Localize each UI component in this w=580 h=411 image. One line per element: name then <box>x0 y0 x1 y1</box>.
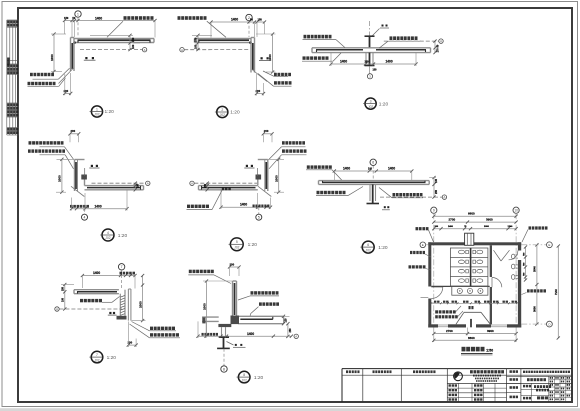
detail 4 reference line and circle A <box>92 182 145 184</box>
svg-text:1400: 1400 <box>343 167 350 171</box>
svg-text:1000: 1000 <box>202 303 206 310</box>
detail 7 reference line and circle A <box>55 307 59 311</box>
detail 7 insulation board <box>127 289 129 321</box>
detail 5 wall <box>267 160 269 192</box>
left sidebar table text rows <box>7 20 9 23</box>
plan interior dimension row <box>431 302 517 304</box>
detail 3 small circle below <box>367 74 372 79</box>
detail 1 reference line and circle A <box>80 49 142 51</box>
plan grid bubble 9 top left <box>431 207 437 213</box>
svg-text:250: 250 <box>204 183 207 188</box>
plan sinks <box>457 288 462 293</box>
svg-text:8: 8 <box>223 367 225 371</box>
title block drawing name section <box>521 375 572 377</box>
detail 7 masonry wall hatched <box>119 294 121 316</box>
detail 7 tie bar label bottom <box>150 333 179 336</box>
plan stall center wall <box>470 248 472 286</box>
detail 5 roof slab <box>199 185 258 187</box>
svg-text:J02: J02 <box>366 248 371 252</box>
detail 8 wall below <box>221 327 223 337</box>
detail 2 embedded part symbol <box>261 57 263 59</box>
detail 1 slab rebar <box>78 39 151 41</box>
svg-text:1000: 1000 <box>268 54 272 61</box>
title block drawing title texts <box>523 385 531 388</box>
detail 8 right slab rebar <box>240 318 272 320</box>
plan left wall <box>428 242 431 286</box>
detail 6 top dimension 1400 100 1400 <box>334 170 412 172</box>
detail 6 wall below <box>369 184 371 201</box>
plan bottom wall <box>428 324 438 327</box>
bottom gray shadow band <box>0 408 580 411</box>
detail 8 polystyrene label right <box>259 302 279 305</box>
svg-text:A: A <box>191 181 193 185</box>
svg-text:J02: J02 <box>242 378 247 382</box>
detail 2 wall break line <box>252 70 267 82</box>
detail 2 scale bubble 1:20 <box>217 106 228 117</box>
svg-text:1:20: 1:20 <box>378 245 388 251</box>
title block right mini grid <box>549 379 572 381</box>
svg-text:1:20: 1:20 <box>107 355 117 361</box>
detail 1 wall break line <box>59 68 74 84</box>
svg-text:1400: 1400 <box>93 271 100 275</box>
detail 5 tie bar label bottom left <box>187 205 209 208</box>
plan label top right exterior <box>529 226 548 229</box>
svg-text:7140: 7140 <box>554 289 558 295</box>
detail 2 rebar mesh label <box>178 16 207 20</box>
svg-text:200: 200 <box>264 129 269 133</box>
svg-text:8: 8 <box>243 373 245 377</box>
detail 5 right dimension 1000 <box>278 159 280 192</box>
plan sink counter <box>452 287 488 296</box>
detail 6 callout circle 6 <box>370 159 376 165</box>
plan exterior labels left side <box>413 227 415 229</box>
detail 3 steel column section <box>365 35 375 37</box>
detail 4 top dimension 200 <box>70 133 79 135</box>
detail 4 wall rebar <box>75 162 77 189</box>
svg-text:10: 10 <box>514 209 518 213</box>
svg-text:A: A <box>147 181 149 185</box>
plan right wall <box>518 242 521 250</box>
detail 3 centerline <box>369 21 371 46</box>
detail 3 slab rebar right <box>376 49 426 51</box>
detail 8 top dimension 200 <box>230 266 240 268</box>
detail 1 callout circle 1 <box>75 11 81 17</box>
detail 5 left small dimension <box>206 183 208 190</box>
title block middle narrow column <box>506 369 508 402</box>
detail 3 wall below slab <box>365 53 367 64</box>
plan top wall <box>428 242 464 245</box>
detail 3 right dimension <box>434 41 436 53</box>
svg-text:J02: J02 <box>220 113 225 117</box>
detail 4 right dimension 25 105 <box>134 183 136 190</box>
detail 2 left dimension 250 100 <box>197 35 199 49</box>
detail 8 left slab stub <box>202 316 219 318</box>
svg-text:J02: J02 <box>234 246 239 250</box>
svg-text:250: 250 <box>131 37 135 42</box>
detail 7 right dimension 1000 <box>142 276 144 321</box>
detail 1 wall rebar <box>71 43 73 69</box>
detail 8 tie bar label <box>189 270 214 273</box>
svg-text:150: 150 <box>258 18 263 22</box>
detail 5 wall rebar <box>265 162 267 189</box>
svg-text:1400: 1400 <box>95 204 102 208</box>
detail 5 slab rebar <box>201 187 256 189</box>
detail 1 left dimension 1000 <box>53 34 55 72</box>
detail 8 parapet rebar <box>234 283 236 315</box>
plan entrance door leaf M1 <box>470 319 472 327</box>
svg-text:1400: 1400 <box>388 167 395 171</box>
svg-text:6600: 6600 <box>468 212 475 216</box>
detail 3 roof slab <box>312 47 431 49</box>
detail 6 roof slab <box>319 180 430 182</box>
detail 2 wall <box>250 38 252 73</box>
plan right label mid <box>527 289 546 292</box>
svg-text:1400: 1400 <box>231 18 238 22</box>
plan top dimension 6600 <box>434 215 516 217</box>
left sidebar table grid <box>6 20 8 135</box>
svg-text:1000: 1000 <box>275 175 279 182</box>
svg-text:7: 7 <box>121 265 123 269</box>
detail 2 right dimension 1000 <box>272 34 274 72</box>
detail 6 scale bubble 1:20 <box>362 241 374 253</box>
svg-text:200: 200 <box>71 129 76 133</box>
plan lower right door arc <box>492 278 502 288</box>
plan right dimension 3540 3600 <box>536 245 538 324</box>
svg-text:100: 100 <box>194 44 198 49</box>
svg-text:250: 250 <box>289 328 292 333</box>
svg-text:250: 250 <box>435 189 438 194</box>
title block company logo <box>454 372 463 381</box>
svg-text:100: 100 <box>435 178 438 183</box>
svg-text:2700: 2700 <box>449 218 456 222</box>
plan inner horizontal partition <box>431 285 489 287</box>
plan urinal dimension <box>525 247 527 280</box>
plan left grid bubble <box>420 242 426 248</box>
svg-text:3540: 3540 <box>533 266 537 272</box>
svg-text:120: 120 <box>285 318 288 323</box>
detail 1 roof slab <box>74 38 154 40</box>
detail 4 wall break line <box>71 186 84 196</box>
detail 1 top dimension 150 50 1400 <box>65 20 156 22</box>
svg-text:100: 100 <box>373 69 378 72</box>
detail 2 callout circle 2 <box>246 14 252 20</box>
svg-text:1000: 1000 <box>58 175 62 182</box>
svg-text:A: A <box>181 48 183 52</box>
plan right overall dimension 7140 <box>557 246 559 338</box>
detail 6 right dimension <box>433 178 435 198</box>
detail 6 steel beam below <box>372 184 374 203</box>
plan bottom dimension 2700 3900 <box>434 333 516 335</box>
detail 8 junction block A <box>231 316 240 325</box>
detail 1 embedded part symbol <box>85 57 87 59</box>
svg-text:4: 4 <box>84 216 86 220</box>
detail 2 tie bar label <box>274 81 292 84</box>
detail 4 left dimension 1000 <box>61 159 63 192</box>
detail 2 reference line and circle A <box>180 48 184 52</box>
detail 2 wall rebar <box>252 43 254 70</box>
detail 8 upper right label <box>251 291 279 294</box>
svg-text:A: A <box>443 195 445 199</box>
svg-text:2700: 2700 <box>446 329 453 333</box>
svg-text:5: 5 <box>258 216 260 220</box>
detail 2 polystyrene label <box>274 73 291 76</box>
detail 6 tie bar label below left <box>317 191 346 194</box>
detail 5 wall corner block <box>256 175 262 180</box>
svg-text:1400: 1400 <box>240 203 247 207</box>
detail 8 right slab <box>238 315 283 317</box>
detail 3 polystyrene label bottom left <box>303 56 329 59</box>
detail 3 steel beam below <box>369 53 371 66</box>
plan bottom dimension 6600 <box>434 339 516 341</box>
svg-text:200: 200 <box>64 89 69 93</box>
detail 3 bottom dimension 1400 100 1400 <box>331 63 416 65</box>
detail 1 right dimension 250 100 <box>129 35 131 49</box>
plan toilets left column <box>459 250 465 254</box>
detail 8 grid circle below <box>223 349 225 366</box>
title block outline <box>342 368 572 370</box>
detail 8 left stub end block <box>202 317 205 323</box>
svg-text:170: 170 <box>437 48 440 53</box>
detail 7 top dimension 1400 50 150 50 <box>82 275 135 277</box>
detail 1 bottom dimension 200 <box>65 92 71 94</box>
detail 7 slab rebar <box>77 291 117 293</box>
svg-text:6: 6 <box>372 161 374 165</box>
detail 7 polystyrene label bottom <box>150 327 175 330</box>
detail 5 wall break line <box>258 186 271 196</box>
svg-text:1:50: 1:50 <box>486 349 493 353</box>
plan entrance ramp <box>456 312 464 324</box>
svg-text:1: 1 <box>96 107 98 111</box>
plan urinals right wall <box>511 254 515 259</box>
title block project name row <box>523 371 570 373</box>
svg-text:J02: J02 <box>94 113 99 117</box>
svg-text:9: 9 <box>433 209 435 213</box>
svg-text:6: 6 <box>367 243 369 247</box>
detail 1 tie bar label <box>28 82 56 85</box>
detail 6 tie bar label below right <box>393 193 423 196</box>
detail 5 reference line and circle A <box>190 181 194 185</box>
svg-text:1:20: 1:20 <box>248 242 258 248</box>
detail 3 reference line and circle A right <box>384 40 439 42</box>
plan top dimension 2700 3900 <box>434 221 516 223</box>
svg-text:100: 100 <box>365 61 370 64</box>
detail 2 slab rebar <box>198 39 249 41</box>
detail 1 rebar mesh label <box>124 16 154 20</box>
detail 1 waterproof label <box>30 73 54 76</box>
svg-text:E: E <box>548 243 550 247</box>
svg-text:2: 2 <box>221 108 223 112</box>
svg-text:150: 150 <box>64 16 69 20</box>
detail 6 polystyrene label left <box>307 165 332 168</box>
detail 1 scale bubble 1:20 <box>91 106 102 117</box>
title block header texts <box>346 370 360 373</box>
detail 4 slab rebar <box>87 187 141 189</box>
title block signature grid <box>447 382 572 384</box>
detail 3 tie bar label right <box>390 36 418 40</box>
detail 8 bottom dimension and reference <box>198 335 291 337</box>
detail 2 roof slab <box>195 38 252 40</box>
plan grid bubble 10 top right <box>513 207 519 213</box>
svg-text:1: 1 <box>77 12 79 16</box>
svg-text:1:20: 1:20 <box>118 233 128 239</box>
svg-text:1000: 1000 <box>50 54 54 61</box>
detail 3 rebar mesh label left <box>304 35 332 39</box>
plan grid bubble D right <box>521 323 546 325</box>
detail 8 parapet wall <box>232 281 234 316</box>
detail 7 bottom dimension 200 <box>128 344 136 346</box>
detail 4 tie bar label <box>29 141 64 144</box>
svg-text:100: 100 <box>368 168 373 171</box>
detail 3 scale bubble 1:20 <box>365 98 376 109</box>
svg-text:1400: 1400 <box>247 332 254 336</box>
svg-text:3000: 3000 <box>484 226 490 228</box>
detail 5 callout circle 5 below <box>258 207 260 214</box>
detail 3 embedded part symbol top <box>382 25 384 27</box>
detail 4 roof slab <box>85 185 144 187</box>
detail 7 callout circle 7 <box>118 264 124 270</box>
svg-text:J02: J02 <box>105 236 110 240</box>
svg-text:J02: J02 <box>94 358 99 362</box>
svg-text:3600: 3600 <box>533 306 537 312</box>
svg-text:1400: 1400 <box>340 60 347 64</box>
detail 5 elevation mark <box>222 187 231 190</box>
svg-text:1:20: 1:20 <box>230 110 240 116</box>
detail 4 wall corner block <box>81 175 87 180</box>
svg-text:1400: 1400 <box>95 16 102 20</box>
plan title <box>462 347 485 352</box>
svg-text:1240: 1240 <box>508 225 514 228</box>
detail 6 slab rebar <box>322 181 426 183</box>
svg-text:A: A <box>440 39 442 43</box>
title block company name <box>470 370 504 373</box>
detail 5 polystyrene label right <box>282 149 307 152</box>
svg-text:6600: 6600 <box>468 336 475 340</box>
detail 5 tie bar label right <box>282 141 305 144</box>
svg-text:3: 3 <box>370 99 372 103</box>
plan grid bubble E right <box>521 244 546 246</box>
title block left columns <box>362 369 364 402</box>
detail 5 bottom dimension 1400 50 150 <box>221 206 271 208</box>
svg-text:2400: 2400 <box>448 225 454 228</box>
detail 4 callout circle 4 below <box>84 209 86 214</box>
svg-text:1:20: 1:20 <box>254 375 264 381</box>
detail 5 scale bubble 1:20 <box>230 238 243 251</box>
svg-text:100: 100 <box>131 44 135 49</box>
svg-text:7: 7 <box>96 353 98 357</box>
svg-text:250: 250 <box>194 37 198 42</box>
svg-text:3900: 3900 <box>487 329 494 333</box>
detail 8 embedded part symbol <box>235 344 237 346</box>
detail 4 polystyrene label <box>28 149 65 152</box>
detail 3 slab rebar left <box>316 49 363 51</box>
svg-text:1400: 1400 <box>386 60 393 64</box>
detail 5 top dimension 200 <box>263 133 272 135</box>
plan top dimension row 3 <box>434 228 516 230</box>
plan toilets right column <box>477 250 483 254</box>
detail 5 embedded part symbol <box>246 165 248 167</box>
svg-text:200: 200 <box>230 262 235 266</box>
svg-text:3900: 3900 <box>486 218 493 222</box>
plan bottom windows <box>438 324 448 326</box>
detail 4 embedded part symbol <box>91 165 93 167</box>
detail 7 footing block <box>117 316 127 320</box>
detail 4 wall <box>74 160 76 192</box>
detail 8 right dimensions <box>283 316 285 323</box>
plan right room door swings <box>494 250 502 261</box>
plan left door arc <box>431 287 443 299</box>
detail 8 junction block B <box>218 324 231 327</box>
plan stall block <box>450 248 488 286</box>
svg-text:250: 250 <box>136 183 139 188</box>
svg-text:A: A <box>144 48 146 52</box>
detail 6 reference line and circle A <box>380 196 442 198</box>
detail 2 top dimension 1400 50 150 <box>211 21 265 23</box>
svg-text:J02: J02 <box>368 105 373 109</box>
detail 7 tie bar label <box>80 299 102 302</box>
svg-text:A: A <box>295 334 297 338</box>
detail 6 embedded part symbol <box>384 206 386 208</box>
svg-text:A: A <box>56 307 58 311</box>
detail 4 bottom dimension 150 50 1400 <box>72 208 128 210</box>
detail 7 left dimension 250 100 <box>64 285 66 310</box>
detail 2 bottom dimension 200 <box>257 93 264 95</box>
detail 7 roof slab <box>74 289 119 291</box>
detail 7 embedded part symbol <box>109 312 111 314</box>
detail 1 wall <box>70 38 72 72</box>
detail 8 scale bubble 1:20 <box>238 371 250 383</box>
svg-text:E: E <box>422 243 424 247</box>
svg-text:4: 4 <box>107 231 109 235</box>
detail 8 left dimension 1000 <box>206 281 208 336</box>
plan vent shaft <box>465 233 474 245</box>
svg-text:1000: 1000 <box>138 301 142 308</box>
svg-text:1:20: 1:20 <box>105 109 115 115</box>
plan inner vertical partition <box>490 245 492 277</box>
detail 8 steel beam <box>219 336 229 338</box>
svg-text:1:20: 1:20 <box>379 101 389 107</box>
detail 4 scale bubble 1:20 <box>102 229 114 241</box>
detail 7 scale bubble 1:20 <box>91 351 103 363</box>
svg-text:250: 250 <box>62 286 65 291</box>
plan label top left exterior <box>416 227 429 230</box>
plan interior labels left <box>435 310 455 313</box>
svg-text:100: 100 <box>62 297 65 302</box>
svg-text:5: 5 <box>236 240 238 244</box>
